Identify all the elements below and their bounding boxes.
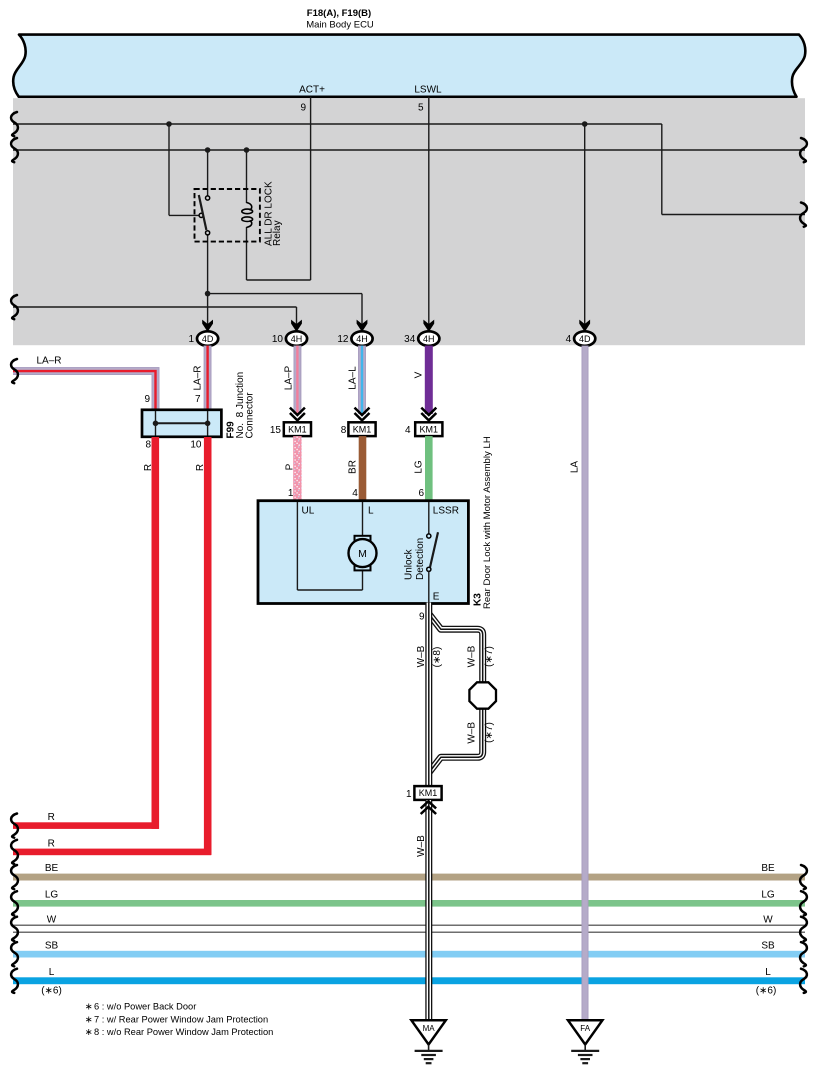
svg-text:LSWL: LSWL — [414, 85, 442, 96]
connector KM1 pin 1 — [414, 786, 441, 800]
svg-text:6: 6 — [418, 488, 424, 499]
svg-text:P: P — [285, 463, 296, 470]
relay switch lower contact — [206, 231, 210, 235]
svg-text:4H: 4H — [356, 334, 368, 344]
svg-text:R: R — [48, 838, 55, 849]
svg-text:BE: BE — [45, 863, 59, 874]
svg-text:(∗6): (∗6) — [756, 986, 777, 997]
svg-text:MA: MA — [423, 1024, 436, 1033]
connector arrow (double chevron) into KM1 pin 4 — [421, 408, 436, 415]
wire: relay switch output down to node D and connector 1(4D) — [207, 235, 209, 324]
wire W-B branch (*7) through noise filter — [429, 615, 482, 684]
svg-text:Detection: Detection — [415, 538, 426, 580]
connector 4H pin 12 — [351, 331, 372, 346]
svg-text:E: E — [433, 592, 440, 603]
svg-text:9: 9 — [419, 612, 425, 623]
svg-text:LA–P: LA–P — [284, 365, 295, 390]
wire LSWL vertical from pin 5 to connector 34(4H) — [428, 97, 430, 324]
motor M in K3 — [355, 536, 371, 541]
connector arrow into 4(4D) — [579, 320, 590, 332]
svg-text:R: R — [143, 464, 154, 471]
svg-text:V: V — [414, 371, 425, 378]
node F99 pin 9/8 — [153, 421, 159, 427]
svg-text:W–B: W–B — [466, 722, 477, 744]
wire P to K3 pin 1 — [293, 436, 301, 500]
svg-text:LG: LG — [414, 460, 425, 474]
wire L band — [13, 977, 805, 984]
svg-text:6 : w/o Power Back Door: 6 : w/o Power Back Door — [94, 1002, 196, 1012]
wire LA-L from connector 12(4H) — [358, 346, 366, 414]
svg-text:M: M — [358, 548, 367, 560]
svg-text:5: 5 — [418, 103, 424, 114]
svg-text:Unlock: Unlock — [404, 548, 415, 580]
svg-text:W–B: W–B — [416, 645, 427, 667]
svg-text:W–B: W–B — [466, 645, 477, 667]
F99 internal bus — [156, 422, 208, 424]
connector 4H pin 34 — [418, 331, 439, 346]
svg-text:FA: FA — [580, 1024, 590, 1033]
node: relay output / wire D junction — [205, 291, 211, 297]
wire LA-P from connector 10(4H) — [294, 346, 302, 414]
connector arrow into 10(4H) — [291, 320, 302, 332]
svg-text:L: L — [49, 967, 55, 978]
svg-text:1: 1 — [288, 488, 294, 499]
connector KM1 pin 4 — [415, 422, 442, 436]
svg-text:R: R — [48, 812, 55, 823]
K3 pin 6 LSSR internal wire — [428, 502, 430, 534]
svg-text:7 : w/ Rear Power Window Jam P: 7 : w/ Rear Power Window Jam Protection — [94, 1014, 268, 1024]
svg-text:4: 4 — [352, 488, 358, 499]
svg-text:34: 34 — [404, 334, 416, 345]
svg-text:9: 9 — [144, 394, 150, 405]
wire BR to K3 pin 4 — [359, 436, 367, 500]
svg-text:BR: BR — [348, 460, 359, 474]
wire LG band — [13, 900, 805, 907]
svg-text:SB: SB — [761, 940, 775, 951]
svg-text:10: 10 — [272, 334, 284, 345]
svg-text:UL: UL — [302, 506, 315, 517]
wire B horizontal y=150 — [13, 149, 805, 151]
svg-text:1: 1 — [189, 334, 195, 345]
svg-text:SB: SB — [45, 940, 59, 951]
wire SB band — [13, 951, 805, 958]
svg-text:15: 15 — [270, 425, 282, 436]
connector KM1 pin 8 — [348, 422, 375, 436]
svg-text:4: 4 — [566, 334, 572, 345]
wire A corner down at x=661.8 — [661, 124, 663, 215]
svg-text:9: 9 — [300, 103, 306, 114]
connector 4D pin 4 — [574, 331, 595, 346]
K3 Rear Door Lock with Motor Assembly LH box — [258, 501, 468, 604]
wire BE band — [13, 874, 805, 881]
wire R vertical from F99 pin 10 — [204, 437, 212, 855]
svg-text:4H: 4H — [423, 334, 435, 344]
svg-text:Rear Door Lock with Motor Asse: Rear Door Lock with Motor Assembly LH — [482, 436, 493, 609]
svg-text:W–B: W–B — [416, 835, 427, 857]
svg-text:L: L — [368, 506, 374, 517]
node: wire B to relay switch contact — [205, 147, 211, 153]
wire LA-R horizontal from break — [13, 367, 159, 410]
svg-text:8 : w/o Rear Power Window Jam: 8 : w/o Rear Power Window Jam Protection — [94, 1027, 273, 1037]
node: wire A to relay switch common — [166, 121, 172, 127]
svg-text:W: W — [763, 914, 773, 925]
relay switch contact (top, from wire B) — [206, 196, 210, 200]
harness shield band (gray) — [13, 98, 805, 345]
svg-text:7: 7 — [195, 394, 201, 405]
svg-text:Main Body ECU: Main Body ECU — [306, 20, 374, 31]
svg-text:Connector: Connector — [245, 392, 256, 439]
node: wire A to connector 4(4D) drop — [582, 121, 588, 127]
ground FA — [568, 1020, 602, 1044]
wire R horizontal upper — [13, 822, 159, 829]
unlock detection switch in K3 — [427, 534, 431, 538]
svg-text:4D: 4D — [202, 334, 214, 344]
wire W band — [13, 924, 805, 926]
svg-text:∗: ∗ — [85, 1027, 93, 1037]
svg-text:(∗7): (∗7) — [484, 722, 495, 743]
relay switch lever — [199, 195, 207, 230]
svg-text:∗: ∗ — [85, 1014, 93, 1024]
svg-text:(∗7): (∗7) — [484, 646, 495, 667]
svg-text:(∗6): (∗6) — [41, 986, 62, 997]
svg-text:LA–R: LA–R — [36, 356, 61, 367]
svg-text:W: W — [47, 914, 57, 925]
svg-text:KM1: KM1 — [353, 424, 372, 434]
wire W-B main from K3 pin E to KM1 pin 1 — [425, 603, 432, 786]
svg-text:KM1: KM1 — [420, 424, 439, 434]
wire LA-R from connector 1(4D) to F99 pin 7 — [204, 346, 212, 410]
svg-text:LA–R: LA–R — [193, 365, 204, 390]
Main Body ECU block U(F18/F19) — [13, 35, 805, 97]
svg-text:∗: ∗ — [85, 1002, 93, 1012]
connector arrow into 1(4D) — [202, 320, 213, 332]
svg-text:12: 12 — [337, 334, 349, 345]
svg-text:LG: LG — [45, 889, 59, 900]
K3 pin 1 UL internal wire — [296, 502, 298, 590]
wire D horizontal y=293.6 from relay output to connector 12(4H) — [208, 293, 362, 295]
svg-text:LA: LA — [570, 461, 581, 474]
wire ACT+ vertical from pin 9 — [310, 97, 312, 280]
node: wire B to relay coil — [244, 147, 250, 153]
wire V from connector 34(4H) — [425, 346, 433, 414]
svg-text:8: 8 — [341, 425, 347, 436]
relay box (dashed) ALL DR LOCK Relay — [195, 189, 260, 242]
svg-text:BE: BE — [761, 863, 775, 874]
relay coil — [247, 203, 252, 211]
wire LA-R vertical into F99 pin 9 — [13, 371, 156, 410]
connector arrow into 12(4H) — [357, 320, 368, 332]
relay switch common contact (left) — [199, 213, 203, 217]
connector 4H pin 10 — [286, 331, 307, 346]
wire R vertical from F99 pin 8 — [152, 437, 160, 829]
svg-text:F18(A), F19(B): F18(A), F19(B) — [307, 8, 371, 19]
wire C horizontal y=307 to connector 10(4H) — [13, 306, 297, 308]
svg-text:LA–L: LA–L — [348, 366, 359, 390]
svg-text:KM1: KM1 — [419, 788, 438, 798]
wire W-B from KM1 pin 1 to ground MA — [425, 800, 432, 1020]
svg-text:1: 1 — [406, 789, 412, 800]
wire break symbols (right) — [800, 138, 807, 162]
svg-text:Relay: Relay — [272, 220, 283, 246]
svg-text:8: 8 — [145, 440, 151, 451]
junction connector F99 (No. 8 Junction Connector) — [142, 410, 221, 437]
svg-text:L: L — [765, 967, 771, 978]
node F99 pin 7/10 — [205, 421, 211, 427]
K3 pin 4 L internal wire — [362, 502, 364, 536]
wire LG to K3 pin 6 — [425, 436, 433, 500]
connector arrow into 34(4H) — [423, 320, 434, 332]
svg-text:4D: 4D — [579, 334, 591, 344]
svg-text:LSSR: LSSR — [433, 506, 459, 517]
ground MA — [411, 1020, 445, 1044]
connector arrow (double chevron) into KM1 pin 15 — [290, 408, 305, 415]
svg-text:KM1: KM1 — [288, 424, 307, 434]
connector 4D pin 1 — [197, 331, 218, 346]
svg-text:10: 10 — [190, 440, 202, 451]
svg-text:(∗8): (∗8) — [432, 647, 443, 668]
svg-text:4H: 4H — [291, 334, 303, 344]
svg-text:LG: LG — [761, 889, 775, 900]
wire break symbols (left) — [11, 112, 18, 136]
svg-text:R: R — [195, 464, 206, 471]
svg-text:4: 4 — [405, 425, 411, 436]
noise filter (octagon) — [469, 682, 496, 708]
wire A horizontal y=124 — [13, 123, 662, 125]
wire: relay coil bottom to ACT+ — [246, 227, 248, 280]
wire R horizontal lower — [13, 849, 211, 856]
connector arrow (double chevron) into KM1 pin 8 — [355, 408, 370, 415]
connector KM1 pin 15 — [284, 422, 311, 436]
wire LA from connector 4(4D) to ground FA — [582, 346, 589, 1020]
wire A exit right y=214.5 — [662, 214, 805, 216]
svg-text:ACT+: ACT+ — [299, 85, 325, 96]
